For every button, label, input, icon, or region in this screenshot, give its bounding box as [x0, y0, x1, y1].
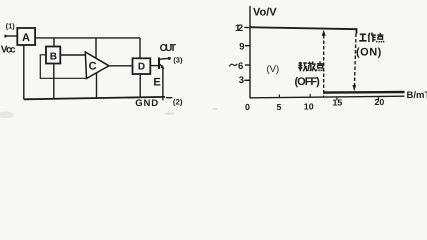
svg-text:E: E [153, 77, 160, 89]
wire C bottom edge to ground rail [96, 73, 98, 98]
node pin (2) tick [166, 97, 172, 99]
svg-text:(ON): (ON) [356, 46, 382, 58]
svg-text:Vo/V: Vo/V [253, 7, 277, 19]
wire B bottom to ground rail [53, 64, 55, 99]
svg-text:Vcc: Vcc [1, 44, 16, 55]
svg-text:5: 5 [277, 102, 282, 112]
svg-text:(3): (3) [173, 56, 183, 65]
svg-text:A: A [22, 32, 30, 44]
label 释放点 char 放 [308, 62, 316, 72]
svg-text:C: C [89, 61, 97, 73]
block B (hall element) [46, 47, 60, 64]
node OUT label [160, 43, 177, 54]
graph x label 0 [245, 102, 250, 112]
wire top rail [35, 37, 140, 39]
svg-text:(2): (2) [173, 98, 183, 107]
graph x tick 10 [304, 94, 314, 111]
svg-text:10: 10 [304, 102, 314, 112]
graph operate point dashed line with down arrow [352, 34, 356, 92]
svg-text:(OFF): (OFF) [295, 76, 321, 88]
graph x tick 20 [375, 97, 385, 107]
node GND label [135, 98, 158, 109]
label 工作点 char 作 [368, 33, 376, 43]
svg-text:6: 6 [238, 61, 243, 72]
op-amp C (amplifier triangle) [85, 52, 109, 79]
label (OFF) [295, 76, 321, 88]
label (ON) [356, 46, 382, 58]
wire rail to D top [139, 38, 141, 58]
wire B to C [60, 54, 85, 56]
graph y tick 9 [239, 41, 250, 52]
node pin (3) label [173, 56, 183, 65]
node Vcc label [1, 44, 16, 55]
graph (V) label [267, 64, 280, 75]
graph x-axis [250, 96, 405, 98]
graph high level line Vo=12 [250, 27, 357, 33]
wire pin1 stub [5, 35, 18, 38]
label 工作点 char 点 [377, 33, 384, 43]
svg-text:20: 20 [375, 97, 385, 107]
svg-text:D: D [138, 61, 145, 72]
graph x-axis label B/mT [407, 90, 427, 101]
wire D bottom to ground rail [139, 74, 141, 97]
graph y tick 6 [238, 61, 250, 72]
label 释放点 char 点 [316, 61, 323, 71]
node E label [153, 77, 160, 89]
graph y tick 12 [235, 23, 250, 34]
svg-text:B: B [50, 51, 57, 62]
wire feedback loop left [40, 55, 86, 79]
svg-text:9: 9 [239, 41, 244, 52]
block D (schmitt/driver) [133, 58, 151, 74]
graph axis break squiggle [229, 64, 237, 67]
svg-text:12: 12 [235, 23, 243, 34]
svg-text:B/mT: B/mT [407, 90, 427, 101]
block A (regulator) [17, 28, 35, 45]
label 工作点 (operate point) char 工 [359, 34, 366, 41]
scan smudge bottom-left [0, 108, 218, 119]
svg-text:(V): (V) [267, 64, 280, 75]
node pin (2) label [173, 98, 183, 107]
graph low level thick line [323, 91, 405, 94]
graph y tick 3 [239, 75, 250, 86]
node pin (1) label [6, 22, 16, 31]
graph release point dashed line with up arrow [322, 30, 326, 97]
transistor Q1 collector to pin 3 [160, 57, 171, 60]
graph x tick 5 [277, 94, 282, 111]
wire C output to D [109, 65, 133, 67]
label 释放点 (release point) char 释 [299, 62, 307, 71]
graph y-axis Vo/V [249, 6, 251, 98]
ground rail [24, 97, 165, 99]
wire D to transistor base [150, 65, 159, 67]
svg-text:0: 0 [245, 102, 250, 112]
transistor Q1 emitter with arrow [160, 64, 165, 100]
svg-text:15: 15 [333, 97, 343, 107]
svg-text:3: 3 [239, 75, 244, 86]
graph y-axis label Vo/V [253, 7, 277, 19]
svg-text:(1): (1) [6, 22, 16, 31]
wire Vcc left rail [23, 45, 25, 99]
wire rail to B top [53, 38, 55, 47]
svg-text:OUT: OUT [160, 43, 177, 54]
svg-text:GND: GND [135, 98, 158, 109]
wire rail to C top edge [95, 38, 97, 59]
transistor Q1 base bar [158, 58, 160, 70]
graph x tick 15 [333, 97, 343, 107]
